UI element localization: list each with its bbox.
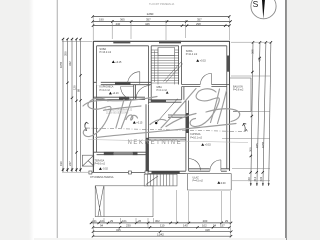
watermark tall slash: [161, 89, 196, 129]
kitchen left wall dark: [186, 113, 189, 133]
left dim ticks: [62, 38, 82, 171]
stair break diagonals: [164, 62, 183, 83]
corridor wall x134: [134, 85, 136, 100]
svg-text:P=11.4 m2: P=11.4 m2: [186, 53, 198, 56]
living spot marker: [133, 121, 143, 124]
stair hall bottom wall: [149, 100, 182, 102]
dining short wall: [168, 115, 186, 117]
svg-text:S: S: [253, 0, 259, 9]
left dim chains: [63, 39, 81, 172]
svg-text:190: 190: [99, 18, 104, 22]
balcony right: [230, 78, 251, 111]
room1 spot marker: [112, 60, 122, 63]
svg-text:1260: 1260: [147, 12, 154, 16]
svg-text:302: 302: [155, 219, 160, 223]
svg-text:29: 29: [110, 219, 114, 223]
entry steps: [144, 174, 177, 186]
svg-text:+0.15: +0.15: [200, 60, 207, 63]
bottom dim rowA line: [91, 222, 231, 224]
svg-text:-0.02: -0.02: [102, 168, 108, 171]
svg-text:94: 94: [100, 224, 104, 228]
bottom dim labels: [92, 219, 229, 236]
svg-text:+0.15: +0.15: [205, 144, 212, 147]
bottom dim ticks: [90, 222, 233, 238]
left dim labels (rotated): [59, 51, 81, 166]
top dim row1 line: [93, 16, 230, 18]
watermark t crossbar: [104, 106, 142, 110]
lower terrace rectangle: [95, 186, 153, 217]
svg-text:190: 190: [59, 161, 63, 166]
svg-text:88: 88: [77, 88, 81, 92]
svg-text:101: 101: [100, 219, 105, 223]
right dim bottom arrows: [250, 183, 270, 186]
wall living/hall x146: [146, 104, 149, 172]
watermark big S right bowl: [190, 98, 219, 127]
svg-text:29: 29: [225, 219, 229, 223]
watermark big S left body: [83, 106, 111, 136]
bathroom label: [100, 86, 114, 92]
stair spot marker: [166, 91, 169, 93]
top dim row2 line: [93, 21, 231, 23]
kitchen label: [190, 133, 202, 139]
living bottom window bands: [104, 152, 114, 155]
svg-text:241: 241: [92, 219, 97, 223]
wall room1 right / stair left: [149, 46, 152, 104]
svg-text:P=4.1 m2: P=4.1 m2: [157, 89, 168, 92]
watermark connector wave: [150, 114, 196, 127]
bathroom wall dark seg: [119, 97, 129, 100]
window top-left room: [113, 41, 130, 44]
north arrow circle: [251, 0, 276, 19]
watermark script: [83, 89, 240, 138]
door arc corridor A: [121, 87, 134, 100]
bottom dim rowC line: [93, 231, 231, 233]
stair well sides: [158, 48, 175, 85]
svg-text:230: 230: [126, 224, 131, 228]
watermark small letters: [126, 115, 138, 120]
svg-text:P=4.5 m2: P=4.5 m2: [193, 179, 204, 182]
svg-text:145: 145: [183, 224, 188, 228]
svg-text:200: 200: [203, 219, 208, 223]
svg-text:94: 94: [213, 224, 217, 228]
wall H2 under room1: [93, 82, 151, 84]
right dim ticks: [249, 41, 272, 173]
watermark top flourish: [83, 97, 157, 107]
top dim ticks: [92, 15, 232, 26]
svg-text:345: 345: [116, 228, 121, 232]
porch spot marker: [217, 181, 226, 185]
svg-text:1055: 1055: [261, 141, 265, 148]
window top-right room top: [159, 41, 181, 44]
svg-text:OTVORENA TERASA: OTVORENA TERASA: [90, 176, 114, 179]
svg-text:247: 247: [68, 161, 72, 166]
bathroom bottom wall: [93, 97, 145, 99]
bottom dim rowB line: [93, 226, 230, 228]
svg-text:P=9.6 m2: P=9.6 m2: [95, 163, 106, 166]
svg-text:TLOCRT PRIZEMLJA: TLOCRT PRIZEMLJA: [149, 2, 175, 6]
H2 dark segment: [115, 82, 131, 85]
stair upper side treads: [151, 50, 178, 53]
ramp X pattern: [96, 186, 104, 216]
outer boundary emphasis: [93, 41, 229, 172]
left page border: [56, 0, 59, 240]
window right wall room2: [227, 56, 230, 72]
svg-text:415: 415: [257, 57, 261, 62]
kitchen spot marker: [201, 143, 211, 146]
svg-text:365: 365: [120, 18, 125, 22]
entry hall bottom wall: [149, 171, 186, 173]
stair label: [157, 86, 168, 92]
entry door band: [152, 171, 180, 174]
svg-text:300: 300: [249, 147, 253, 152]
svg-text:+0.15: +0.15: [115, 61, 122, 64]
extension lines right: [222, 42, 270, 181]
door arc kitchen bottom: [210, 160, 221, 171]
entrance porch: [186, 174, 231, 190]
terrace label: [95, 159, 106, 165]
watermark under sweep: [96, 124, 236, 138]
section line A-A: [85, 122, 249, 132]
svg-text:21218 SEGET DONJI: 21218 SEGET DONJI: [106, 113, 129, 115]
section arrow right: [243, 123, 247, 131]
outer top wall: [93, 40, 230, 42]
room1 label: [100, 48, 112, 54]
staircase: [151, 48, 183, 85]
svg-text:+0.15: +0.15: [136, 121, 143, 124]
svg-text:P=10.1 m2: P=10.1 m2: [190, 136, 202, 139]
door gap wall H2: [97, 81, 101, 85]
bottom faint band: [34, 238, 286, 240]
watermark tt slashes: [116, 100, 132, 128]
right outer wall: [226, 46, 228, 169]
terrace spot marker: [99, 167, 109, 170]
svg-text:1342: 1342: [157, 232, 164, 236]
left outer wall: [92, 41, 94, 172]
svg-text:350: 350: [64, 51, 68, 56]
wall x146 dark lower: [146, 138, 149, 173]
door arc room2: [200, 73, 211, 84]
right dim chains: [251, 42, 271, 186]
svg-text:440: 440: [116, 22, 121, 26]
balcony label: [233, 86, 244, 92]
top dim row3 line: [93, 25, 230, 27]
svg-text:342: 342: [68, 61, 72, 66]
svg-text:1055: 1055: [59, 61, 63, 68]
right page border: [285, 0, 287, 240]
watermark big S left top loop: [88, 98, 108, 109]
door arc corridor B: [136, 86, 150, 100]
bathroom spot marker: [109, 92, 119, 95]
entry hall top wall: [149, 138, 186, 140]
small room bottom dark seg: [151, 100, 166, 103]
kitchen bottom wall: [189, 169, 230, 171]
terrace bottom edge: [89, 171, 148, 173]
svg-text:UL. KNEZA BRANIMIRA 22: UL. KNEZA BRANIMIRA 22: [104, 109, 133, 112]
living leader label: [155, 99, 178, 125]
bottom dim rowD line: [93, 235, 231, 237]
living room bottom wall: [93, 152, 148, 155]
kitchen left wall: [186, 101, 189, 171]
door arc room1: [128, 72, 140, 84]
door arc living-kitchen: [189, 159, 201, 171]
stair direction line: [154, 51, 156, 83]
living bottom window sill: [114, 153, 133, 155]
svg-text:101: 101: [122, 219, 127, 223]
watermark line through letters: [88, 140, 248, 143]
extension lines top: [93, 15, 229, 40]
svg-text:975: 975: [255, 143, 259, 148]
svg-text:298: 298: [196, 22, 201, 26]
svg-text:P=4.2 m2: P=4.2 m2: [100, 89, 111, 92]
svg-text:365: 365: [250, 49, 254, 54]
section arrow left: [85, 122, 89, 130]
left dim bottom arrows: [62, 169, 81, 172]
small room right wall: [182, 87, 184, 100]
extension lines bottom: [93, 190, 230, 237]
watermark right tail: [206, 109, 240, 122]
wall under top-right room: [182, 84, 230, 86]
svg-text:+0.13: +0.13: [112, 92, 119, 95]
svg-text:26: 26: [138, 219, 142, 223]
room2 spot marker: [196, 59, 206, 62]
right gray scan band: [287, 0, 320, 240]
stair well rect: [158, 48, 175, 56]
stair full treads: [151, 56, 178, 84]
porch label: [193, 176, 204, 182]
svg-text:P=13.2 m2: P=13.2 m2: [100, 51, 112, 54]
chimney box left: [82, 155, 93, 166]
room2 label: [186, 50, 198, 56]
extension lines left: [62, 42, 92, 173]
svg-text:157: 157: [220, 224, 225, 228]
watermark big S right top: [196, 89, 216, 101]
svg-text:0.00: 0.00: [221, 182, 226, 185]
north needle: [262, 0, 266, 19]
watermark address text: [104, 109, 133, 115]
svg-text:446: 446: [145, 22, 150, 26]
top dim labels: [99, 12, 202, 26]
right dim labels (rotated): [247, 49, 265, 182]
svg-text:P=5.8 m2: P=5.8 m2: [233, 89, 244, 92]
svg-text:110: 110: [160, 224, 165, 228]
svg-text:102: 102: [202, 224, 207, 228]
thick dark wall segments (window bands etc.): [104, 41, 230, 174]
svg-text:418: 418: [205, 228, 210, 232]
watermark right S slashes: [211, 89, 227, 124]
terrace columns: [89, 171, 148, 174]
wall stair right: [179, 46, 182, 85]
